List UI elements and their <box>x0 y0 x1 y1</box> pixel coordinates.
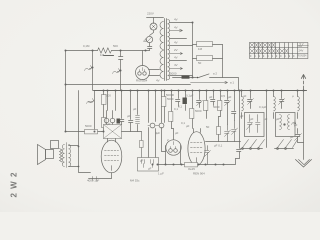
wire x=130 cap <box>129 91 133 132</box>
wire x=161 <box>162 91 166 152</box>
svg-text:µF: µF <box>240 114 244 118</box>
svg-text:µF: µF <box>175 131 179 135</box>
capacitor C6 <box>197 91 201 108</box>
wire: vertical x=103 <box>103 91 105 132</box>
wire: rail y=131 <box>66 131 102 133</box>
svg-text:220V: 220V <box>147 12 154 16</box>
wire grid leads <box>102 111 113 132</box>
resistor R4 box vertical <box>102 95 107 105</box>
svg-text:0,5: 0,5 <box>221 94 225 98</box>
wire: vertical x=192 <box>192 23 194 78</box>
capacitor C8 <box>225 91 229 125</box>
transformer T1 primary winding <box>160 22 164 50</box>
tap 7 arrow <box>170 68 183 70</box>
svg-text:µF: µF <box>228 95 232 99</box>
svg-text:500: 500 <box>113 44 118 48</box>
wire: vertical x=94 <box>94 91 96 132</box>
mains input 220V <box>147 18 164 24</box>
main bus y=90 <box>94 90 307 92</box>
svg-text:24V: 24V <box>299 49 304 53</box>
svg-text:2kV: 2kV <box>299 46 303 48</box>
tube V2 leads <box>194 129 201 165</box>
switch contact squiggle antenna <box>292 121 296 125</box>
resistor R9 <box>171 91 173 112</box>
wire x=148 <box>148 91 150 158</box>
wire: mid rail y=84 <box>66 84 191 86</box>
wire: vertical x=120 <box>120 51 122 91</box>
transformer T1 secondary winding <box>168 19 170 79</box>
coupling cap C3 <box>120 91 124 125</box>
svg-text:µF: µF <box>294 123 298 127</box>
svg-text:µF: µF <box>186 124 190 128</box>
rectifier filament leads <box>149 70 160 76</box>
voice coil zigzag <box>60 149 63 163</box>
svg-text:5000: 5000 <box>170 72 177 76</box>
barretter RB <box>146 36 152 42</box>
resistor R2 box <box>197 42 213 47</box>
coil L3 <box>273 91 275 97</box>
speaker magnet box <box>51 141 59 149</box>
wire: left vertical x=65 <box>65 51 67 132</box>
wire a1 arrow <box>191 81 228 83</box>
svg-text:a 1: a 1 <box>230 81 234 85</box>
antenna A <box>301 75 305 91</box>
variable capacitor C12 <box>225 125 229 142</box>
grid terminals <box>104 118 109 123</box>
interstage transformer T2 box <box>104 125 122 139</box>
band switch levers 1 <box>243 140 265 148</box>
capacitor C4 <box>176 91 180 107</box>
svg-text:50000: 50000 <box>166 93 174 97</box>
cathode resistor label zone <box>93 177 97 181</box>
svg-text:µF: µF <box>133 107 137 111</box>
svg-text:4V: 4V <box>174 56 178 60</box>
bottom rail y=164 <box>148 159 236 165</box>
variable capacitor CV3 <box>296 129 304 143</box>
tap 3 <box>170 38 187 40</box>
capacitor C2 mains <box>148 43 152 51</box>
variable capacitor CV1 <box>248 91 252 109</box>
wire y=77 <box>173 77 197 79</box>
variable cap in box <box>248 115 253 133</box>
svg-text:5000: 5000 <box>213 105 220 109</box>
svg-text:4V: 4V <box>174 18 178 22</box>
band switch levers 2 <box>278 140 298 148</box>
svg-text:µF: µF <box>250 117 254 121</box>
speaker LS cone <box>38 145 46 165</box>
svg-text:5000: 5000 <box>85 124 92 128</box>
capacitor C1 <box>119 57 123 60</box>
svg-text:500: 500 <box>106 94 111 98</box>
switch contact S1 squiggle <box>85 66 92 71</box>
resistor R10 <box>192 91 194 109</box>
capacitor C9 <box>232 91 236 121</box>
coil box 1 <box>245 113 265 137</box>
terminal posts <box>150 123 155 128</box>
variable capacitor CV2 <box>280 91 284 109</box>
svg-text:2V: 2V <box>174 48 178 52</box>
svg-text:µF: µF <box>264 117 268 121</box>
svg-text:µF: µF <box>276 117 280 121</box>
svg-text:50: 50 <box>206 125 210 129</box>
resistor R14 small <box>141 132 143 158</box>
resistor R3 box <box>197 56 213 61</box>
wire: vertical x=303 down <box>303 91 305 160</box>
coil box 2 IF transformer <box>276 113 296 137</box>
dial lamp LP1 <box>150 23 157 30</box>
svg-text:µF: µF <box>148 167 152 171</box>
svg-text:4V: 4V <box>174 41 178 45</box>
svg-text:a 2: a 2 <box>213 72 217 76</box>
svg-text:50: 50 <box>198 61 202 65</box>
wire: top-left rail y=50 <box>66 50 150 52</box>
svg-text:µF: µF <box>107 122 111 126</box>
detector tube V1 circle <box>166 140 181 155</box>
svg-text:2 W 2: 2 W 2 <box>10 172 19 198</box>
svg-text:µF 0,1: µF 0,1 <box>214 144 223 148</box>
svg-text:0,1: 0,1 <box>178 105 182 109</box>
rectifier tube V4 RGN354 <box>136 66 150 80</box>
wire: vertical x=78 <box>79 91 91 173</box>
output transformer T3 <box>62 145 64 167</box>
wire x=265 <box>266 91 268 148</box>
electrolytic C5 black <box>185 91 187 98</box>
svg-text:µF: µF <box>140 159 144 163</box>
wire rail y=141 <box>206 141 241 143</box>
tap 2 arrow <box>170 29 183 32</box>
ground E <box>296 160 312 168</box>
svg-text:5000: 5000 <box>167 97 174 101</box>
switch contact S2 squiggle <box>113 69 120 74</box>
wire lamp to barretter <box>150 31 154 36</box>
resistor R8 <box>164 91 166 97</box>
svg-text:µF: µF <box>290 135 294 139</box>
svg-text:M4 53c: M4 53c <box>130 179 140 183</box>
svg-text:4V: 4V <box>174 26 178 30</box>
svg-text:0,1µF: 0,1µF <box>259 105 267 109</box>
wire: vertical x=222 <box>222 45 224 78</box>
tap 1 <box>170 22 193 24</box>
wire verticals x=108..123 from bus <box>108 91 116 111</box>
coil L2 <box>241 91 243 97</box>
resistor R12 <box>220 91 222 101</box>
tiny value labels <box>83 12 298 183</box>
voltage table <box>250 43 309 59</box>
svg-text:RGN354: RGN354 <box>298 56 308 58</box>
svg-text:4µF: 4µF <box>155 131 160 135</box>
tap 5 arrow <box>170 53 183 55</box>
wire x=238 <box>236 91 241 159</box>
resistor R1 zigzag 0.1M <box>98 48 112 53</box>
tube V1 leads <box>166 129 181 165</box>
output transformer leads <box>69 146 79 167</box>
svg-text:1M: 1M <box>100 53 105 57</box>
output tube V3 oval <box>101 140 122 173</box>
resistor R13 box vertical <box>218 117 220 127</box>
switch S3 mains <box>199 74 239 91</box>
tube V3 leads <box>89 139 116 179</box>
svg-text:RGN354: RGN354 <box>136 79 148 83</box>
switch contact squiggle <box>87 99 94 104</box>
svg-text:1M: 1M <box>198 47 203 51</box>
fuse F1 black box <box>182 76 190 79</box>
resistor R5 box vertical <box>102 118 107 128</box>
svg-text:0w15: 0w15 <box>188 167 195 171</box>
choke L1 x=137 <box>137 91 139 115</box>
svg-text:REN 904: REN 904 <box>193 172 205 176</box>
svg-text:50: 50 <box>88 100 92 104</box>
svg-text:µF: µF <box>209 95 213 99</box>
svg-text:4V: 4V <box>156 79 160 83</box>
wire rail y=131 right part <box>122 131 142 133</box>
svg-text:5000: 5000 <box>195 109 202 113</box>
resistor R7 box on rail <box>185 163 198 167</box>
speaker driver <box>46 150 54 159</box>
svg-text:4V: 4V <box>174 63 178 67</box>
svg-text:µF: µF <box>127 114 131 118</box>
variable capacitor C13 <box>232 121 236 142</box>
tap 4 <box>170 45 193 47</box>
tube V2 oval <box>188 132 205 166</box>
svg-text:1 µF: 1 µF <box>158 172 164 176</box>
tap 8 <box>170 75 193 77</box>
svg-text:4000 1µF: 4000 1µF <box>87 179 100 183</box>
capacitor C10 arrow <box>205 146 209 165</box>
capacitor C7 <box>211 91 215 106</box>
coil L4 antenna <box>297 91 299 97</box>
svg-text:µF: µF <box>243 94 247 98</box>
tap 6 <box>170 60 187 62</box>
electrolytic C11 blob <box>117 119 121 124</box>
wire: vertical x=92 <box>92 51 94 91</box>
resistor R6 box on rail <box>85 130 98 134</box>
capacitor box (dashed) <box>138 158 159 172</box>
wire x=155 <box>155 91 157 158</box>
svg-text:0,1µF: 0,1µF <box>186 94 194 98</box>
svg-text:0,1: 0,1 <box>181 121 185 125</box>
wire rect anode <box>142 51 144 66</box>
resistor R11 <box>206 91 208 101</box>
transformer T1 core <box>165 19 167 81</box>
svg-text:0,1M: 0,1M <box>83 44 90 48</box>
